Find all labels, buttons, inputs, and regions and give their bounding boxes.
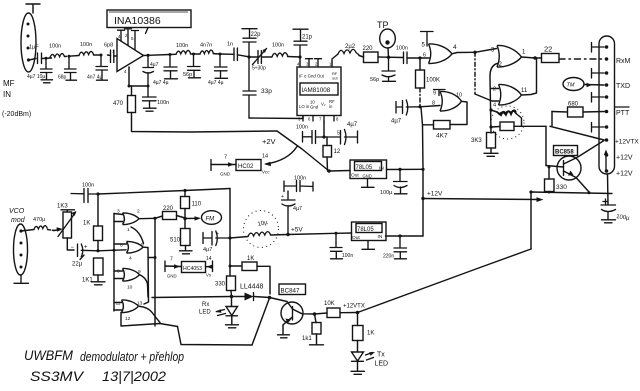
svg-text:2: 2 <box>493 87 496 93</box>
switch IC U8 HC4053 label box <box>182 262 206 273</box>
svg-text:1k1: 1k1 <box>302 336 312 342</box>
wire 680 column <box>551 112 553 127</box>
node out <box>146 54 149 57</box>
connector J1 MF IN <box>21 13 36 72</box>
capacitor C4 4n7 shunt <box>96 55 108 80</box>
resistor R3 220 <box>364 52 379 63</box>
resistor R13 220 <box>163 212 177 220</box>
svg-text:VCO: VCO <box>9 208 25 215</box>
svg-text:1K3: 1K3 <box>57 204 68 210</box>
node mid divider <box>183 217 186 220</box>
wire to gate4 pin8 <box>420 106 440 107</box>
wire bottom jog <box>178 327 253 346</box>
wire dashdot <box>419 88 421 107</box>
diagonal long to 10K node <box>358 249 532 313</box>
svg-text:IF o Gnd Out: IF o Gnd Out <box>299 74 325 79</box>
svg-text:+12V: +12V <box>427 191 443 198</box>
ground <box>41 80 53 83</box>
svg-text:V₂: V₂ <box>321 102 326 107</box>
resistor R17 330 in bus <box>227 276 236 291</box>
resistor R12 1K1 to ground <box>94 258 104 275</box>
svg-text:4µ7: 4µ7 <box>347 122 358 128</box>
node column x491 <box>489 108 492 111</box>
capacitor C10 shunt <box>215 54 228 78</box>
svg-text:TM: TM <box>567 83 575 89</box>
svg-text:4n7n: 4n7n <box>200 43 212 49</box>
svg-text:+: + <box>84 245 88 251</box>
node Vd <box>322 135 325 138</box>
capacitor C13 trimmer 5-30p <box>258 51 261 64</box>
ground <box>66 79 77 81</box>
svg-text:BC858: BC858 <box>555 150 574 156</box>
svg-text:RxM: RxM <box>616 58 631 65</box>
svg-text:UWBFM: UWBFM <box>24 348 74 363</box>
svg-text:MF: MF <box>3 79 15 88</box>
capacitor C23 100n <box>330 233 343 259</box>
svg-text:PTT: PTT <box>616 110 630 117</box>
svg-text:Vs: Vs <box>206 273 211 278</box>
collector <box>293 309 315 314</box>
wire <box>65 55 70 57</box>
svg-text:SS3MV: SS3MV <box>30 368 85 384</box>
pointer <box>146 28 149 34</box>
node out shunt <box>169 53 172 56</box>
svg-text:68p: 68p <box>58 75 67 81</box>
svg-text:5: 5 <box>337 131 340 137</box>
wire <box>249 56 272 58</box>
feedback bus x155 <box>154 218 156 326</box>
svg-text:IAM81008: IAM81008 <box>302 87 331 94</box>
svg-text:GND: GND <box>363 174 372 179</box>
svg-text:4: 4 <box>453 44 457 51</box>
svg-text:14: 14 <box>262 154 268 160</box>
node trimmer junction <box>247 55 250 58</box>
voltage regulator U6 78L05 <box>352 222 387 241</box>
svg-text:Out: Out <box>352 235 360 241</box>
capacitor C12 22p to top bar <box>242 29 257 57</box>
wire dashed to RxM <box>559 58 602 60</box>
svg-text:4µ7: 4µ7 <box>203 247 212 253</box>
svg-text:GND: GND <box>167 274 177 279</box>
wire diagonal up to diode node <box>252 298 270 345</box>
svg-text:+5V: +5V <box>291 227 303 234</box>
wire D lower input loop <box>121 313 178 327</box>
svg-text:10: 10 <box>456 93 462 99</box>
resistor R20 1K <box>353 326 364 341</box>
svg-text:1n: 1n <box>227 42 233 48</box>
resistor R1 470 <box>128 96 136 113</box>
pin stubs bottom <box>303 116 334 122</box>
node A <box>45 57 48 60</box>
wire +5V rail <box>288 233 352 235</box>
resistor R6 22 <box>542 54 560 63</box>
inductor L7 dark choke <box>497 110 516 115</box>
svg-text:4µ7 4µ: 4µ7 4µ <box>208 80 224 86</box>
potentiometer P1 1K3 <box>63 212 72 238</box>
svg-text:1: 1 <box>127 227 130 233</box>
capacitor C15 33p branch <box>243 57 256 118</box>
node reg1 in <box>327 169 330 172</box>
svg-text:4µ7 4µ: 4µ7 4µ <box>153 80 169 86</box>
svg-text:4µ7: 4µ7 <box>391 119 402 125</box>
connector J2 right <box>599 36 615 174</box>
base wire <box>270 298 293 310</box>
node B <box>68 55 71 58</box>
svg-text:100n: 100n <box>176 43 188 49</box>
emitter with arrow <box>564 171 590 192</box>
wire <box>170 53 194 56</box>
node 100n <box>96 192 99 195</box>
capacitor C14 21p to top bar <box>293 29 308 57</box>
LED arrows <box>217 310 226 316</box>
wire base column <box>545 126 547 165</box>
wire <box>69 55 79 58</box>
svg-text:12: 12 <box>125 316 131 322</box>
svg-text:mod: mod <box>11 217 26 224</box>
capacitor C2 4u7/10u shunt <box>41 59 53 80</box>
capacitor C8 4u7 shunt at output <box>164 55 177 79</box>
svg-text:680: 680 <box>568 102 579 108</box>
T bar pin 5 <box>421 32 434 47</box>
wire <box>329 170 350 173</box>
wire gate A out to node <box>139 217 155 219</box>
ground T above input connector <box>26 4 40 13</box>
capacitor C21 100u electrolytic bottom right <box>607 174 610 205</box>
node 56p <box>192 53 195 56</box>
resistor R8 3K3 <box>487 133 496 149</box>
pin stubs HC4053 <box>164 261 166 272</box>
svg-text:out: out <box>332 76 338 81</box>
capacitor C26 4u7 electrolytic vertical <box>282 191 296 235</box>
node pins J1 <box>27 23 30 26</box>
resistor R14 110 <box>181 197 190 209</box>
svg-text:+: + <box>281 194 284 200</box>
svg-text:Gnd: Gnd <box>310 105 319 110</box>
node 4u7/gate4 <box>418 105 421 108</box>
node <box>219 53 222 56</box>
node C <box>100 54 103 57</box>
svg-text:13|7|2002: 13|7|2002 <box>102 368 166 384</box>
resistor R2 12 <box>323 146 332 158</box>
node 22u <box>96 249 99 252</box>
svg-text:2: 2 <box>137 209 140 215</box>
wire vertical x531 <box>530 192 532 250</box>
IC U2 IAM81008 <box>297 67 341 116</box>
svg-text:78L05: 78L05 <box>357 227 374 233</box>
svg-text:+12V: +12V <box>616 171 633 178</box>
svg-text:demodulator + přehlop: demodulator + přehlop <box>80 349 184 364</box>
wire <box>42 57 52 60</box>
svg-text:22p: 22p <box>251 32 262 38</box>
svg-text:9: 9 <box>433 91 436 97</box>
svg-text:21p: 21p <box>302 35 313 41</box>
wire +12V column x423 <box>421 108 423 237</box>
wire gate A lower crossover <box>131 227 144 244</box>
emitter with arrow <box>283 317 293 325</box>
svg-text:22µ: 22µ <box>72 262 83 268</box>
FM oval tag with arrow <box>185 217 198 219</box>
svg-text:1K1: 1K1 <box>82 278 93 284</box>
resistor R18 pull down <box>312 323 321 335</box>
wire gate3 inputs <box>491 88 499 90</box>
capacitor C7 100n to ground <box>143 86 157 108</box>
node +12VTX <box>356 311 360 315</box>
svg-text:11: 11 <box>521 88 528 94</box>
capacitor C22 100u <box>394 169 408 193</box>
svg-text:1K: 1K <box>247 256 254 262</box>
diode D1 series <box>245 293 254 301</box>
wire <box>194 53 221 55</box>
svg-text:470µ: 470µ <box>33 217 46 223</box>
svg-text:BC847: BC847 <box>281 288 300 295</box>
ground <box>97 79 108 81</box>
svg-text:11: 11 <box>116 301 121 307</box>
connector pin dots <box>605 45 609 49</box>
capacitor C29 4u7 electrolytic horizontal <box>203 231 230 246</box>
label box IAM81008 <box>300 83 338 95</box>
svg-text:3K3: 3K3 <box>471 138 482 144</box>
svg-text:22: 22 <box>544 45 552 54</box>
svg-text:(-20dBm): (-20dBm) <box>2 111 31 118</box>
svg-text:10: 10 <box>127 285 133 291</box>
wire 33p to pin3 <box>249 116 303 119</box>
svg-text:110: 110 <box>192 202 202 208</box>
transistor Q1 BC858 label box <box>554 146 578 156</box>
wire dashdot from node down <box>474 52 476 94</box>
svg-text:HC4053: HC4053 <box>183 266 202 272</box>
svg-text:7: 7 <box>170 257 173 263</box>
svg-text:Out: Out <box>351 173 359 179</box>
capacitor C20 4u7 electrolytic <box>396 100 420 115</box>
svg-text:Rx: Rx <box>202 302 209 308</box>
wire reg2 in <box>386 235 424 237</box>
svg-text:100n: 100n <box>396 46 408 52</box>
voltage regulator U5 78L05 <box>350 160 387 179</box>
wire dashed with arrow to pot <box>48 230 55 231</box>
main vertical bus x230 <box>229 189 231 277</box>
svg-text:14: 14 <box>206 256 212 262</box>
svg-text:Vcc: Vcc <box>262 170 270 175</box>
svg-text:TXD: TXD <box>616 83 630 90</box>
pin stubs T bars <box>592 43 605 133</box>
svg-text:+12V: +12V <box>616 155 633 162</box>
wire gate out <box>522 57 536 58</box>
svg-text:TP: TP <box>377 20 389 30</box>
svg-text:LO in: LO in <box>299 104 310 109</box>
node base <box>548 166 551 169</box>
OR gate U3B pins 9,8 out 10 <box>440 91 462 111</box>
arrow inside connector <box>605 152 607 170</box>
resistor R16 1K horizontal <box>242 262 257 271</box>
svg-text:HC02: HC02 <box>238 164 254 170</box>
svg-text:IN: IN <box>378 234 383 240</box>
svg-text:INA10386: INA10386 <box>114 15 161 27</box>
svg-text:100n: 100n <box>342 253 353 259</box>
svg-text:5÷30p: 5÷30p <box>252 66 266 72</box>
svg-text:+12VTX: +12VTX <box>343 304 365 310</box>
svg-text:6p8: 6p8 <box>104 43 113 49</box>
connector J3 VCO mod <box>14 224 28 275</box>
svg-text:13: 13 <box>137 301 143 307</box>
svg-text:FM: FM <box>206 217 215 223</box>
wire choke to +5V node <box>230 235 288 239</box>
LED D3 Tx <box>352 352 364 361</box>
svg-text:1K: 1K <box>367 331 374 337</box>
wire bottom rail y193 <box>531 192 612 194</box>
pin 1 wire to 2u2 <box>332 54 338 67</box>
capacitor C9 56p shunt <box>188 54 201 77</box>
svg-text:78L05: 78L05 <box>356 165 373 171</box>
svg-text:470: 470 <box>113 101 124 107</box>
svg-text:220: 220 <box>163 206 174 212</box>
wire output U1 <box>144 54 149 56</box>
svg-text:1K: 1K <box>83 221 90 227</box>
resistor R10 330 <box>545 179 555 192</box>
svg-text:LED: LED <box>375 361 389 368</box>
TM oval tag <box>563 78 584 91</box>
test point TP <box>380 29 396 48</box>
svg-text:100n: 100n <box>272 43 284 49</box>
wire pot bottom <box>67 238 74 250</box>
wire gate B out down x148 <box>143 247 149 304</box>
dotted circle around RF choke <box>491 106 524 139</box>
svg-text:12: 12 <box>334 149 341 155</box>
input bus left of gates <box>113 214 115 312</box>
collector diagonal to +12VTX <box>564 141 605 165</box>
ground <box>484 153 498 156</box>
svg-text:220: 220 <box>363 46 374 52</box>
svg-text:330: 330 <box>556 184 567 191</box>
dotted circle demod coil <box>244 211 279 248</box>
ground U6 <box>362 241 375 250</box>
resistor R5 4K7 <box>434 121 451 130</box>
pin U1 bottom <box>128 67 130 86</box>
capacitor C6 4u7 series vertical electrolytic <box>143 55 154 86</box>
node collector <box>313 312 317 316</box>
wire gate2 pin2 loop down <box>490 64 497 134</box>
svg-text:100n: 100n <box>296 125 308 131</box>
svg-text:4: 4 <box>129 256 132 262</box>
svg-text:33p: 33p <box>261 88 272 95</box>
wire <box>29 59 36 61</box>
LED D2 Rx <box>231 297 233 307</box>
svg-text:LED: LED <box>199 310 211 316</box>
wire gate2 feedback loop via 4K7 <box>450 101 467 124</box>
svg-text:4K7: 4K7 <box>436 133 448 140</box>
pin stubs U1 top with T bars <box>118 29 139 50</box>
svg-text:100n: 100n <box>49 44 61 50</box>
OR gate U3A pins 5,6 out 4 <box>429 44 453 64</box>
svg-text:+12VTX: +12VTX <box>615 139 639 146</box>
wire <box>148 54 170 57</box>
OR gate U4B out 11 <box>499 84 522 105</box>
pin stubs top <box>299 57 301 67</box>
svg-text:4µ7: 4µ7 <box>293 206 302 212</box>
T bar pin 9 <box>434 90 446 96</box>
svg-text:100K: 100K <box>426 78 440 84</box>
svg-text:+2V: +2V <box>262 137 276 146</box>
wire gate C out down <box>140 275 149 297</box>
resistor R9 680 <box>568 107 584 117</box>
svg-text:1µF: 1µF <box>29 45 39 51</box>
capacitor C3 68p shunt <box>65 57 77 80</box>
resistor R4 100K <box>416 70 425 88</box>
capacitor C1 1uF <box>38 53 42 64</box>
wire bus y190 to right <box>98 189 230 195</box>
wire +12V feed line y199 with arrow <box>423 199 539 200</box>
capacitor C18 56p below TP <box>382 57 396 81</box>
ground <box>165 78 178 80</box>
label box INA10386 <box>107 10 191 28</box>
wire gate3 output up to node <box>522 58 537 95</box>
svg-text:330: 330 <box>215 282 226 288</box>
svg-text:4µ7 10µ: 4µ7 10µ <box>27 74 45 80</box>
wire gate1 out <box>452 52 475 54</box>
resistor R19 10K <box>327 308 340 318</box>
wire <box>21 230 34 232</box>
transistor Q2 BC847 label box <box>279 284 306 295</box>
ground U5 <box>362 179 375 188</box>
svg-text:+: + <box>216 231 219 237</box>
op-amp U1 INA10386 <box>117 39 144 72</box>
diagonal D1 to +12VTX <box>550 126 604 140</box>
svg-text:220n: 220n <box>383 254 394 260</box>
wire <box>387 168 424 170</box>
svg-text:56p: 56p <box>183 72 192 78</box>
svg-text:4: 4 <box>493 103 496 109</box>
node gate1 input <box>418 56 421 59</box>
NOR gate U7A <box>123 213 140 225</box>
capacitor C24 220n <box>394 236 407 259</box>
svg-text:Tx: Tx <box>377 352 385 359</box>
svg-text:IN: IN <box>379 166 384 172</box>
svg-text:8: 8 <box>432 101 435 107</box>
wire <box>288 56 300 59</box>
NOR gate U7D <box>122 300 139 313</box>
svg-text:100n: 100n <box>157 100 169 106</box>
wire +2V diagonal <box>277 131 329 171</box>
svg-text:100n: 100n <box>82 183 94 189</box>
transistor Q1 <box>557 156 581 180</box>
OR gate U4A pins 3,2 out 1 <box>497 45 522 67</box>
wire diode rail y296 <box>152 297 232 298</box>
svg-text:10K: 10K <box>324 301 335 307</box>
resistor R7 <box>500 122 514 131</box>
svg-text:56p: 56p <box>370 77 379 83</box>
pin 14 Vcc wire from +2V diagonal <box>266 147 297 165</box>
IC U7 HC02 label box <box>236 160 261 171</box>
svg-text:100n: 100n <box>80 42 92 48</box>
resistor R15 510 <box>181 229 191 246</box>
wire <box>129 85 148 87</box>
wire node to gate pin3 <box>475 49 497 53</box>
svg-text:−: − <box>71 245 75 251</box>
wire <box>94 54 102 56</box>
transistor Q2 <box>281 302 303 324</box>
svg-text:510: 510 <box>170 238 181 244</box>
wire to gate B input <box>98 250 126 251</box>
svg-text:7: 7 <box>224 155 227 161</box>
capacitor C27 22u electrolytic <box>78 244 99 257</box>
resistor R11 1K <box>94 226 103 241</box>
ground J3 <box>14 275 29 283</box>
svg-text:IN: IN <box>3 90 11 99</box>
svg-text:4µ7: 4µ7 <box>150 62 159 68</box>
pin 7 GND stub <box>210 160 212 171</box>
wire gate D out <box>139 306 161 322</box>
node TP <box>387 56 390 59</box>
svg-text:GND: GND <box>220 172 231 177</box>
